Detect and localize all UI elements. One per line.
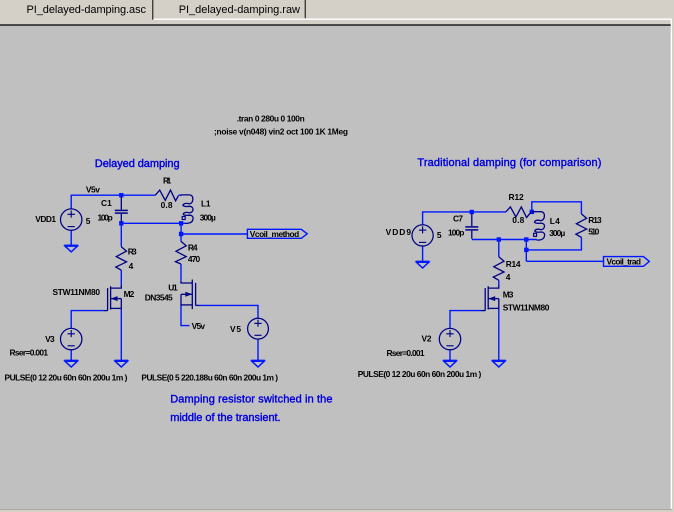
svg-text:middle of the transient.: middle of the transient.: [170, 412, 280, 424]
svg-text:470: 470: [188, 254, 201, 264]
svg-text:PI_delayed-damping.asc: PI_delayed-damping.asc: [27, 4, 147, 16]
svg-text:5: 5: [437, 230, 442, 240]
svg-text:4: 4: [129, 261, 134, 271]
svg-text:PULSE(0 5 220.188u 60n 60n 200: PULSE(0 5 220.188u 60n 60n 200u 1m ): [141, 372, 278, 382]
svg-text:R14: R14: [506, 259, 521, 269]
svg-text:;noise v(n048) vin2 oct 100 1: ;noise v(n048) vin2 oct 100 1K 1Meg: [214, 126, 348, 136]
svg-text:STW11NM80: STW11NM80: [503, 303, 550, 313]
svg-text:VDD9: VDD9: [386, 227, 412, 237]
svg-text:R4: R4: [188, 242, 198, 252]
svg-text:L1: L1: [201, 198, 211, 208]
svg-text:U1: U1: [168, 283, 178, 293]
svg-text:V5v: V5v: [192, 321, 206, 331]
svg-text:300µ: 300µ: [200, 213, 216, 223]
svg-text:0.8: 0.8: [512, 215, 524, 225]
svg-text:.tran 0 280u 0 100n: .tran 0 280u 0 100n: [237, 114, 305, 124]
svg-text:Traditional damping (for compa: Traditional damping (for comparison): [417, 157, 601, 169]
svg-text:V5: V5: [230, 324, 241, 334]
svg-text:Vcoil_trad: Vcoil_trad: [607, 257, 642, 267]
svg-text:5: 5: [86, 216, 91, 226]
svg-text:R3: R3: [128, 246, 137, 256]
svg-text:C7: C7: [453, 214, 463, 224]
svg-text:R13: R13: [588, 215, 602, 225]
svg-text:510: 510: [588, 227, 599, 237]
svg-text:300µ: 300µ: [549, 228, 565, 238]
svg-text:4: 4: [506, 272, 511, 282]
svg-text:PULSE(0 12 20u 60n 60n 200u 1m: PULSE(0 12 20u 60n 60n 200u 1m ): [358, 369, 482, 379]
svg-text:PULSE(0 12 20u 60n 60n 200u 1m: PULSE(0 12 20u 60n 60n 200u 1m ): [5, 373, 128, 383]
svg-text:Vcoil_method: Vcoil_method: [250, 229, 299, 239]
svg-text:100p: 100p: [98, 212, 113, 222]
svg-text:STW11NM80: STW11NM80: [53, 287, 101, 297]
svg-text:Rser=0.001: Rser=0.001: [387, 348, 425, 358]
svg-text:R1: R1: [163, 176, 172, 186]
svg-text:0.8: 0.8: [161, 200, 173, 210]
svg-text:V3: V3: [45, 334, 55, 344]
svg-text:M3: M3: [503, 290, 514, 300]
svg-text:V5v: V5v: [86, 185, 100, 195]
svg-text:Delayed damping: Delayed damping: [95, 158, 180, 170]
svg-text:C1: C1: [101, 198, 112, 208]
svg-text:R12: R12: [509, 192, 525, 202]
svg-text:VDD1: VDD1: [35, 214, 56, 224]
svg-text:PI_delayed-damping.raw: PI_delayed-damping.raw: [179, 4, 300, 16]
svg-text:Rser=0.001: Rser=0.001: [10, 348, 49, 358]
svg-text:DN3545: DN3545: [145, 293, 173, 303]
svg-text:V2: V2: [422, 334, 432, 344]
svg-text:Damping resistor switched in t: Damping resistor switched in the: [170, 393, 332, 405]
svg-text:100p: 100p: [448, 227, 464, 237]
svg-text:L4: L4: [550, 216, 560, 226]
svg-text:M2: M2: [124, 289, 135, 299]
